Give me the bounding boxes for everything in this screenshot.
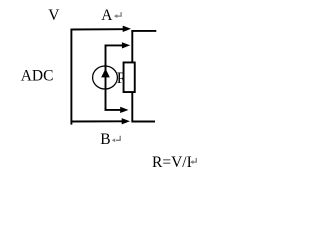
wire: top horizontal to node A with arrowhead (71, 26, 132, 32)
wire: bottom horizontal to node B with arrowhead (71, 118, 131, 124)
svg-text:V: V (48, 7, 60, 24)
wire: left vertical (ADC/source loop) (70, 29, 72, 125)
svg-text:B: B (100, 131, 110, 148)
wire: current source top lead with arrowhead toward resistor (106, 42, 131, 66)
svg-text:ADC: ADC (21, 68, 54, 85)
wire: vertical through current source (105, 64, 107, 111)
node A (sense terminal label) (101, 7, 113, 24)
wire: current source bottom lead with arrowhead toward resistor (106, 107, 129, 113)
resistor value label R (117, 70, 128, 87)
return mark after B (112, 136, 120, 142)
return mark after R=V/I (190, 158, 196, 164)
wire: bottom right segment (terminal B lead) (131, 121, 155, 123)
return mark after A (114, 12, 121, 18)
formula R=V/I (152, 154, 192, 171)
current source I1 (circle) (93, 66, 118, 89)
node V (voltage label) (48, 7, 60, 24)
svg-text:R=V/I: R=V/I (152, 154, 192, 171)
node B (sense terminal label) (100, 131, 110, 148)
resistor R (rectangle, white fill covers wire and label) (124, 62, 135, 92)
ADC block label (21, 68, 54, 85)
svg-text:A: A (101, 7, 113, 24)
wire: vertical through resistor (x=132.3) (131, 30, 133, 122)
wire: top right segment (terminal A lead) (131, 30, 156, 32)
current source I1 arrowhead (current direction up) (101, 68, 110, 77)
